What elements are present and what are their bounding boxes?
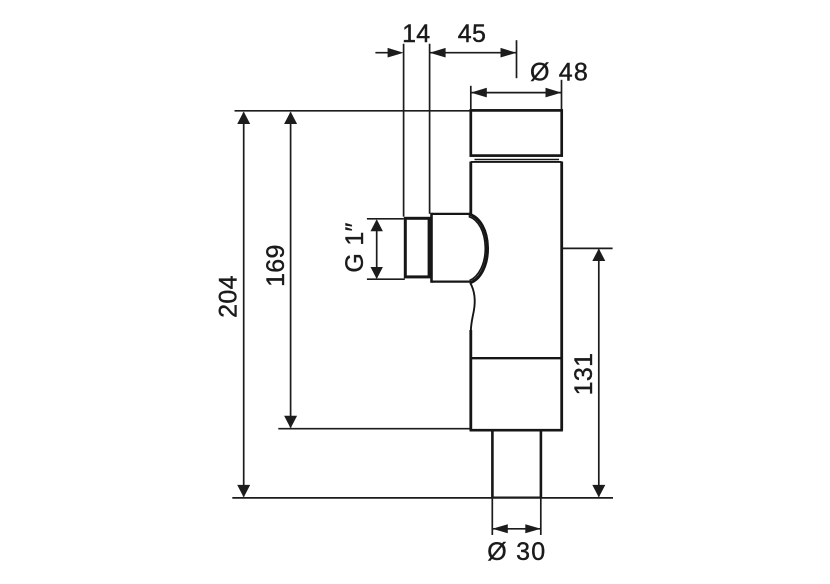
arrowhead 45 right (right)	[501, 48, 517, 58]
extension line top-left horizontal	[235, 110, 471, 112]
inlet boss left edge	[430, 213, 433, 283]
svg-text:169: 169	[262, 244, 290, 287]
arrowhead 14 leader (right)	[388, 48, 404, 58]
valve body bottom edge	[470, 429, 563, 432]
svg-text:131: 131	[570, 353, 598, 396]
arrowhead G1 top (up)	[371, 219, 383, 231]
arrowhead diameter 48 left (left)	[471, 88, 487, 98]
dimension line diameter 30	[492, 528, 541, 530]
svg-text:45: 45	[458, 20, 486, 48]
inlet boss bottom edge	[432, 281, 471, 283]
inlet boss top edge	[432, 213, 470, 215]
arrowhead 204 top (up)	[237, 112, 250, 125]
extension line 169 bottom	[278, 428, 470, 430]
inlet fitting G1 nut	[405, 218, 429, 277]
valve cap	[471, 110, 562, 155]
dimension line 45	[430, 52, 517, 54]
extension line G1 bottom	[367, 278, 405, 280]
extension line 131 top	[563, 247, 613, 249]
dimension line 204 vertical	[243, 113, 245, 497]
valve body left edge lower	[469, 330, 472, 431]
outlet pipe right edge	[540, 430, 543, 497]
valve body right edge	[560, 162, 563, 431]
arrowhead G1 bottom (down)	[371, 267, 383, 279]
arrowhead diameter 30 right (right)	[525, 524, 541, 533]
extension line 14 right vertical	[429, 44, 431, 214]
body seam line	[471, 357, 562, 359]
extension line 14 left vertical	[403, 44, 405, 217]
arrowhead 45 left (left)	[430, 48, 446, 58]
extension line bottom long (204 and 131 datum)	[232, 497, 613, 499]
svg-text:Ø 30: Ø 30	[487, 538, 546, 566]
extension line diameter 48 left	[470, 86, 472, 110]
arrowhead diameter 48 right (right)	[546, 88, 562, 98]
svg-text:G 1″: G 1″	[341, 222, 369, 272]
arrowhead 169 top (up)	[284, 112, 297, 125]
extension line diameter 30 left	[491, 499, 493, 536]
leader line into 14 left	[375, 52, 392, 54]
outlet pipe bottom edge	[492, 496, 541, 498]
dimension line diameter 48	[471, 92, 562, 94]
cap separator ring	[475, 159, 560, 161]
dimension line G1 vertical	[376, 221, 378, 278]
svg-text:Ø 48: Ø 48	[530, 59, 589, 87]
extension tick 45 right	[516, 40, 518, 78]
valve body left edge upper	[469, 162, 472, 215]
dimension line 169 vertical	[290, 113, 292, 428]
dimension line 131 vertical	[598, 250, 600, 497]
extension line diameter 30 right	[540, 499, 542, 536]
svg-text:14: 14	[402, 20, 430, 48]
inlet dome inner line	[469, 216, 486, 280]
arrowhead 131 bottom (down)	[592, 485, 605, 498]
arrowhead 131 top (up)	[592, 249, 605, 262]
inlet dome	[469, 214, 488, 283]
arrowhead 204 bottom (down)	[237, 485, 250, 498]
neck fillet curve below dome	[470, 283, 474, 332]
arrowhead diameter 30 left (left)	[492, 524, 508, 533]
extension line diameter 48 right	[561, 80, 563, 110]
arrowhead 169 bottom (down)	[284, 416, 297, 429]
outlet pipe left edge	[491, 430, 494, 497]
extension line G1 top	[367, 218, 404, 220]
svg-text:204: 204	[214, 275, 242, 318]
valve body top edge	[471, 161, 562, 163]
